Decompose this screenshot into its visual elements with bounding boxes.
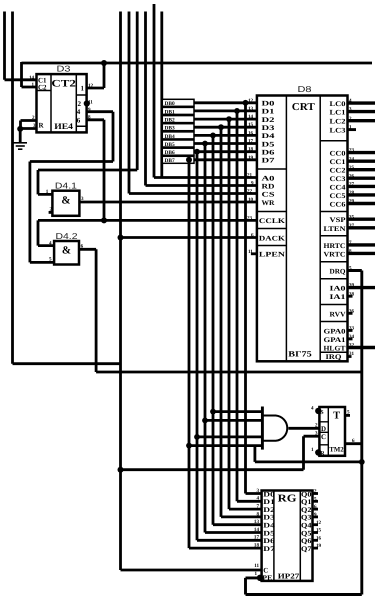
svg-text:ТМ2: ТМ2: [329, 446, 344, 453]
svg-text:CS: CS: [262, 190, 275, 198]
svg-text:CC6: CC6: [330, 201, 347, 209]
wire HRTC output stub: [348, 243, 375, 246]
gate D4.2 box: [54, 241, 79, 265]
wire D3 output 1 up to top line: [87, 63, 104, 88]
wire DB0 row to D8.D0 and down to RG.D0: [194, 103, 262, 494]
wire IRQ output stub: [348, 355, 352, 358]
and-gate input wire from DB5 net: [205, 419, 262, 422]
svg-text:32: 32: [349, 343, 355, 349]
svg-text:4: 4: [77, 108, 81, 116]
svg-text:18: 18: [248, 147, 254, 153]
svg-text:26: 26: [349, 173, 355, 179]
wire D4.2 output down and right below D8 to DRQ net: [79, 249, 362, 372]
wire left vertical 2 long down: [11, 12, 14, 364]
svg-text:DRQ: DRQ: [330, 268, 347, 276]
svg-text:D1: D1: [263, 498, 275, 506]
svg-text:CC4: CC4: [330, 183, 347, 191]
node dot DB2: [226, 116, 232, 122]
svg-text:IA0: IA0: [330, 285, 347, 293]
svg-text:D2: D2: [262, 116, 276, 124]
wire C2 staple from top line down to C2 input: [22, 62, 37, 87]
wire D4.1 output to WR: [79, 201, 257, 204]
wire trigger Q-bar feedback to and-gate input: [255, 446, 362, 462]
svg-text:13: 13: [254, 519, 260, 525]
svg-text:14: 14: [29, 75, 35, 81]
svg-text:T: T: [333, 411, 340, 422]
svg-text:D6: D6: [262, 149, 276, 157]
node dot and-gate input DB4: [210, 409, 216, 415]
ground symbol: [14, 143, 28, 149]
svg-text:D5: D5: [262, 140, 276, 148]
svg-text:Q2: Q2: [301, 506, 312, 514]
svg-text:25: 25: [349, 165, 355, 171]
wire bus5 vertical to A0: [154, 4, 257, 178]
svg-text:Q6: Q6: [301, 537, 312, 545]
svg-text:16: 16: [316, 535, 322, 541]
wire bus2 vertical to CS: [129, 12, 257, 194]
node dot CCLK junction with D3 output 6: [101, 217, 107, 223]
svg-text:23: 23: [349, 148, 355, 154]
net label box DB2: [162, 116, 194, 124]
node dot DB0: [243, 100, 249, 106]
and-gate input bar: [261, 407, 264, 450]
RG Q7 stub: [313, 547, 319, 550]
svg-text:LTEN: LTEN: [324, 225, 346, 233]
svg-text:14: 14: [248, 114, 254, 120]
node dot and-gate input DB6: [194, 434, 200, 440]
svg-text:LC0: LC0: [330, 100, 347, 108]
svg-text:D: D: [321, 425, 326, 433]
svg-text:RVV: RVV: [330, 310, 346, 318]
svg-text:D5: D5: [263, 529, 275, 537]
svg-text:LC1: LC1: [330, 109, 347, 117]
svg-text:D4.2: D4.2: [56, 231, 78, 241]
svg-text:6: 6: [77, 116, 81, 124]
svg-text:CRT: CRT: [292, 102, 315, 113]
trigger T box TM2: [319, 407, 345, 456]
svg-text:Q4: Q4: [301, 522, 312, 530]
svg-text:DB4: DB4: [165, 134, 175, 140]
svg-text:D3: D3: [262, 124, 276, 132]
wire CC5 output stub: [348, 193, 375, 196]
node dot DACK on bus1: [118, 235, 124, 241]
svg-text:ИЕ4: ИЕ4: [54, 121, 74, 131]
wire trigger Q-bar output to feedback rail: [345, 442, 362, 445]
gate D4.1 box: [52, 191, 79, 216]
node dot C net on bus1: [118, 467, 124, 473]
svg-text:DACK: DACK: [259, 234, 286, 242]
svg-text:ВГ75: ВГ75: [288, 350, 311, 359]
net label box DB5: [162, 140, 194, 148]
svg-text:D3: D3: [263, 514, 275, 522]
svg-text:1: 1: [81, 85, 85, 93]
svg-text:D7: D7: [262, 157, 276, 165]
wire D3 R pins 2 and 3 tied: [21, 121, 37, 129]
and-gate input wire from DB7 net: [189, 444, 262, 447]
svg-text:D4: D4: [262, 132, 276, 140]
wire LPEN stub: [251, 252, 257, 255]
svg-text:1: 1: [311, 447, 314, 453]
and-gate input wire from DB6 net: [197, 435, 262, 438]
svg-text:D6: D6: [263, 537, 275, 545]
svg-text:12: 12: [316, 520, 322, 526]
svg-text:17: 17: [254, 535, 260, 541]
svg-text:CCLK: CCLK: [259, 217, 286, 225]
svg-text:15: 15: [316, 528, 322, 534]
svg-text:D0: D0: [263, 490, 275, 498]
svg-text:HRTC: HRTC: [324, 242, 346, 250]
wire down to ground: [19, 129, 22, 143]
svg-text:39: 39: [349, 283, 355, 289]
svg-text:D7: D7: [263, 545, 275, 553]
svg-text:1: 1: [254, 571, 257, 577]
svg-text:33: 33: [349, 326, 355, 332]
svg-text:22: 22: [247, 189, 253, 195]
svg-text:CC5: CC5: [330, 192, 347, 200]
svg-text:29: 29: [349, 199, 355, 205]
wire D3 output 4 to D4.2 input 2: [30, 112, 113, 263]
net label box DB6: [162, 148, 194, 156]
trigger S pin dot: [315, 408, 321, 414]
svg-text:R: R: [39, 121, 45, 129]
wire DB3 row to D8.D3 and down to RG.D3: [194, 127, 262, 517]
node junction dot on top line: [101, 60, 107, 66]
wire left vertical 1 to C1 input: [5, 12, 37, 80]
svg-text:2: 2: [78, 100, 82, 108]
svg-text:RD: RD: [262, 182, 275, 190]
svg-text:LPEN: LPEN: [259, 251, 285, 259]
wire trigger C input from bus1: [121, 436, 320, 470]
svg-text:23: 23: [247, 215, 253, 221]
wire VSP output stub: [348, 217, 375, 220]
wire bus3 vertical to D4.1 input 1: [38, 12, 137, 195]
RG Q2 stub: [313, 508, 319, 511]
svg-text:14: 14: [254, 527, 260, 533]
register RG box IR27: [262, 491, 313, 581]
RG Q6 stub: [313, 539, 319, 542]
svg-text:HLGT: HLGT: [324, 345, 346, 353]
svg-text:D4.1: D4.1: [55, 181, 77, 191]
svg-text:LC2: LC2: [330, 118, 347, 126]
svg-text:&: &: [62, 245, 71, 257]
svg-text:VSP: VSP: [330, 216, 347, 224]
wire bottom loop to RG PE: [246, 578, 362, 595]
svg-text:GPA1: GPA1: [324, 336, 347, 344]
svg-text:DB7: DB7: [165, 158, 175, 164]
wire CC1 output stub: [348, 159, 375, 162]
node dot and-gate input DB5: [202, 418, 208, 424]
wire LC0 output stub: [348, 101, 375, 104]
svg-text:C: C: [321, 433, 326, 441]
node dot DB7: [186, 157, 192, 163]
svg-text:34: 34: [349, 334, 355, 340]
svg-text:D3: D3: [57, 64, 71, 74]
RG Q3 stub: [313, 516, 319, 519]
svg-text:LC3: LC3: [330, 127, 347, 135]
wire CC6 output stub: [348, 202, 375, 205]
wire IA1 output stub: [348, 295, 353, 298]
svg-text:C2: C2: [38, 84, 47, 92]
wire top horizontal bus line: [22, 62, 373, 65]
svg-text:36: 36: [349, 308, 355, 314]
svg-text:Q5: Q5: [301, 529, 312, 537]
RG Q1 stub: [313, 500, 319, 503]
wire IA0 output stub: [348, 286, 375, 289]
counter D3 box CT2: [37, 74, 87, 132]
svg-text:ИР27: ИР27: [278, 572, 300, 581]
svg-text:CC2: CC2: [330, 167, 347, 175]
svg-text:DB1: DB1: [165, 109, 175, 115]
and-gate input wire from DB4 net: [213, 410, 262, 413]
svg-text:VRTC: VRTC: [324, 250, 346, 258]
wire DRQ to vertical feedback rail: [348, 271, 362, 595]
svg-text:PE: PE: [262, 574, 272, 582]
wire LTEN output stub: [348, 226, 375, 229]
svg-text:28: 28: [349, 190, 355, 196]
svg-text:1: 1: [46, 189, 49, 195]
svg-text:Q7: Q7: [301, 545, 312, 553]
wire DACK from bus1: [121, 236, 257, 239]
svg-text:Q1: Q1: [301, 498, 312, 506]
wire DB7 row to D8.D7 and down to RG.D7: [189, 160, 262, 548]
node dot at R ground junction: [17, 126, 23, 132]
wire bus6 vertical: [160, 12, 163, 178]
wire CC2 output stub: [348, 168, 375, 171]
wire DB1 row to D8.D1 and down to RG.D1: [194, 111, 262, 501]
wire LC2 output stub: [348, 119, 375, 122]
svg-text:11: 11: [248, 249, 253, 255]
svg-text:DB3: DB3: [165, 126, 175, 132]
svg-text:CC0: CC0: [330, 150, 347, 158]
net label box DB3: [162, 124, 194, 132]
svg-text:38: 38: [349, 291, 355, 297]
wire DB5 row to D8.D5 and down to RG.D5: [194, 144, 262, 533]
trigger R pin dot: [315, 449, 321, 455]
node dot DB6: [194, 149, 200, 155]
svg-text:CC3: CC3: [330, 175, 347, 183]
svg-text:WR: WR: [262, 199, 276, 207]
svg-text:D2: D2: [263, 506, 275, 514]
svg-text:19: 19: [248, 155, 254, 161]
RG Q0 stub: [313, 492, 319, 495]
wire DB2 row to D8.D2 and down to RG.D2: [194, 119, 262, 509]
node dot and-gate input DB7: [186, 443, 192, 449]
svg-text:Q3: Q3: [301, 514, 312, 522]
svg-text:D4: D4: [263, 522, 275, 530]
RG Q4 stub: [313, 523, 319, 526]
svg-text:15: 15: [248, 122, 254, 128]
wire CC4 output stub: [348, 185, 375, 188]
node dot DB3: [218, 124, 224, 130]
wire left vertical 2 join to bus1: [13, 362, 121, 365]
wire DB4 row to D8.D4 and down to RG.D4: [194, 135, 262, 524]
svg-text:10: 10: [248, 197, 254, 203]
wire LC3 output stub: [348, 128, 357, 131]
and-gate body: [262, 416, 287, 441]
wire CC3 output stub: [348, 176, 375, 179]
svg-text:Q0: Q0: [301, 490, 312, 498]
svg-text:21: 21: [247, 173, 253, 179]
node dot DB4: [210, 133, 216, 139]
counter D3 output 2 stub dot: [84, 100, 90, 106]
wire D3 output 6 down to CCLK net: [87, 120, 104, 221]
wire bus4 vertical to RD: [146, 12, 257, 186]
svg-text:DB5: DB5: [165, 142, 175, 148]
svg-text:35: 35: [349, 214, 355, 220]
svg-text:37: 37: [349, 223, 355, 229]
svg-text:CT2: CT2: [51, 79, 76, 90]
svg-text:D1: D1: [262, 108, 276, 116]
wire VRTC output stub: [348, 252, 375, 255]
node dot feedback rail junction: [359, 459, 365, 465]
svg-text:13: 13: [248, 106, 254, 112]
svg-text:CC1: CC1: [330, 158, 347, 166]
wire and-gate output to trigger D input: [288, 427, 319, 430]
svg-text:16: 16: [248, 130, 254, 136]
net label box DB1: [162, 107, 194, 115]
RG Q5 stub: [313, 531, 319, 534]
svg-text:RG: RG: [278, 494, 297, 505]
wire HLGT output stub: [348, 346, 375, 349]
wire RVV output stub: [348, 312, 353, 315]
svg-text:12: 12: [248, 98, 254, 104]
CRT controller U D8 box: [257, 96, 348, 362]
svg-text:31: 31: [349, 351, 355, 357]
svg-text:&: &: [61, 195, 70, 207]
svg-text:DB0: DB0: [165, 101, 175, 107]
svg-text:19: 19: [316, 543, 322, 549]
svg-text:A0: A0: [262, 174, 276, 182]
node dot at PE pin: [257, 575, 263, 581]
svg-text:D8: D8: [298, 84, 312, 94]
wire GPA1 output stub: [348, 337, 353, 340]
wire CC0 output stub: [348, 151, 375, 154]
svg-text:17: 17: [248, 139, 254, 145]
svg-text:24: 24: [349, 156, 355, 162]
svg-text:GPA0: GPA0: [324, 327, 347, 335]
svg-text:4: 4: [311, 405, 314, 411]
trigger Q output stub: [345, 414, 350, 417]
svg-text:IRQ: IRQ: [326, 353, 343, 361]
wire LC1 output stub: [348, 110, 375, 113]
node dot DB5: [202, 141, 208, 147]
svg-text:IA1: IA1: [330, 293, 347, 301]
node dot DB1: [234, 108, 240, 114]
net label box DB7: [162, 156, 194, 164]
svg-text:D0: D0: [262, 100, 276, 108]
svg-text:27: 27: [349, 182, 355, 188]
net label box DB0: [162, 99, 194, 107]
svg-text:11: 11: [254, 563, 259, 569]
wire DB6 row to D8.D6 and down to RG.D6: [194, 152, 262, 541]
wire bus1 vertical DACK/C/RG.C net: [121, 12, 262, 571]
svg-text:DB2: DB2: [165, 118, 175, 124]
wire CCLK line with branch to D4.2 input 1: [38, 220, 257, 245]
svg-text:18: 18: [254, 543, 260, 549]
svg-text:DB6: DB6: [165, 150, 175, 156]
wire GPA0 output stub: [348, 329, 353, 332]
net label box DB4: [162, 132, 194, 140]
gate D4.1 input 2 stub: [49, 211, 53, 214]
